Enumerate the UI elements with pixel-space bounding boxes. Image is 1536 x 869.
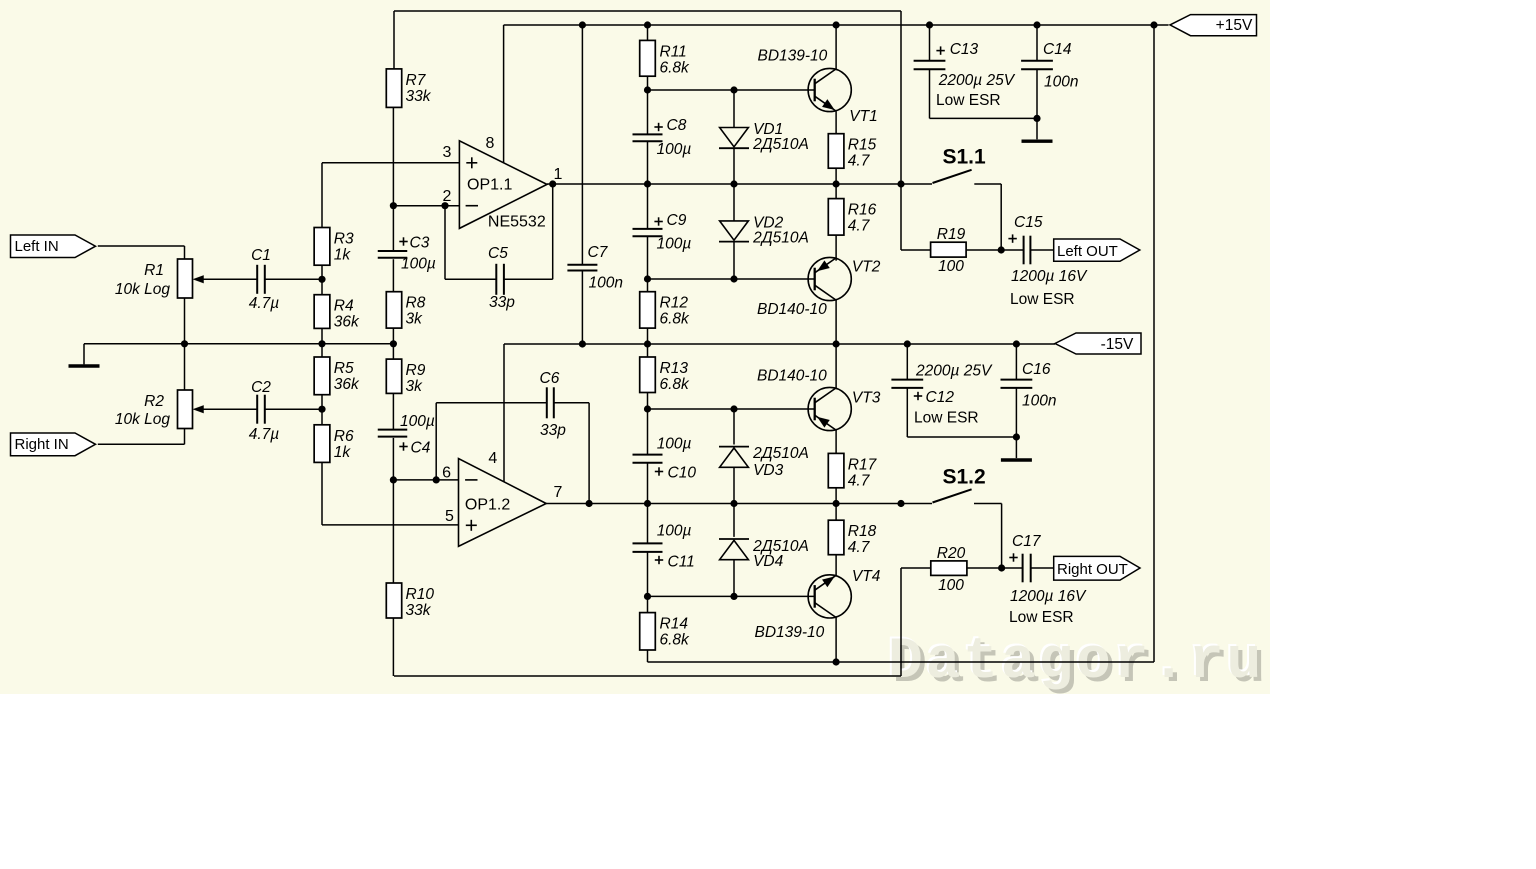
- svg-text:Low ESR: Low ESR: [1010, 291, 1075, 308]
- svg-text:C10: C10: [668, 465, 697, 482]
- svg-text:C6: C6: [540, 370, 560, 387]
- svg-text:6.8k: 6.8k: [660, 376, 691, 393]
- svg-text:VT1: VT1: [849, 108, 877, 125]
- svg-text:R12: R12: [660, 295, 689, 312]
- svg-text:C13: C13: [950, 41, 979, 58]
- svg-text:33p: 33p: [489, 294, 515, 311]
- svg-text:R8: R8: [406, 295, 426, 312]
- svg-text:2200µ 25V: 2200µ 25V: [915, 363, 993, 380]
- svg-text:4.7µ: 4.7µ: [249, 295, 280, 312]
- svg-text:1200µ 16V: 1200µ 16V: [1010, 588, 1087, 605]
- svg-text:R11: R11: [660, 43, 687, 60]
- svg-text:C15: C15: [1014, 214, 1043, 231]
- svg-text:100µ: 100µ: [400, 413, 435, 430]
- svg-text:10k Log: 10k Log: [115, 281, 171, 298]
- svg-text:NE5532: NE5532: [488, 214, 546, 231]
- svg-text:1k: 1k: [334, 444, 352, 461]
- svg-text:VD3: VD3: [753, 462, 784, 479]
- svg-text:OP1.2: OP1.2: [465, 497, 510, 514]
- svg-text:R9: R9: [406, 362, 426, 379]
- svg-text:2200µ 25V: 2200µ 25V: [938, 72, 1016, 89]
- svg-text:100: 100: [938, 258, 964, 275]
- svg-text:+15V: +15V: [1216, 17, 1253, 34]
- svg-text:36k: 36k: [334, 376, 360, 393]
- svg-text:36k: 36k: [334, 314, 360, 331]
- svg-text:C2: C2: [251, 379, 271, 396]
- svg-text:3k: 3k: [406, 378, 424, 395]
- svg-text:C5: C5: [488, 245, 508, 262]
- svg-text:6.8k: 6.8k: [660, 632, 691, 649]
- svg-text:100µ: 100µ: [657, 141, 692, 158]
- svg-text:R16: R16: [848, 202, 877, 219]
- svg-text:C16: C16: [1022, 361, 1051, 378]
- svg-text:R4: R4: [334, 298, 354, 315]
- svg-text:VT2: VT2: [852, 258, 881, 275]
- svg-text:100µ: 100µ: [657, 236, 692, 253]
- svg-text:1k: 1k: [334, 247, 352, 264]
- svg-text:R20: R20: [937, 545, 966, 562]
- svg-text:BD140-10: BD140-10: [757, 301, 827, 318]
- svg-text:R14: R14: [660, 616, 689, 633]
- svg-text:Left IN: Left IN: [15, 238, 59, 255]
- svg-text:3k: 3k: [406, 311, 424, 328]
- svg-text:R2: R2: [144, 393, 164, 410]
- svg-text:6.8k: 6.8k: [660, 59, 691, 76]
- svg-text:R6: R6: [334, 428, 354, 445]
- svg-text:6: 6: [442, 465, 451, 482]
- svg-text:R7: R7: [406, 72, 427, 89]
- svg-text:C1: C1: [251, 247, 271, 264]
- svg-text:Low ESR: Low ESR: [1009, 609, 1074, 626]
- svg-text:Right OUT: Right OUT: [1057, 561, 1128, 578]
- svg-text:4.7µ: 4.7µ: [249, 426, 280, 443]
- svg-text:R1: R1: [144, 262, 164, 279]
- svg-text:2Д510А: 2Д510А: [752, 445, 809, 462]
- svg-text:1200µ 16V: 1200µ 16V: [1011, 268, 1088, 285]
- svg-text:R17: R17: [848, 456, 878, 473]
- svg-text:100n: 100n: [589, 275, 623, 292]
- svg-text:100: 100: [938, 577, 964, 594]
- svg-text:33p: 33p: [540, 422, 566, 439]
- svg-text:Low ESR: Low ESR: [936, 92, 1001, 109]
- svg-text:8: 8: [486, 135, 495, 152]
- svg-text:1: 1: [554, 166, 563, 183]
- svg-text:4.7: 4.7: [848, 539, 871, 556]
- svg-text:R18: R18: [848, 523, 877, 540]
- svg-text:33k: 33k: [406, 88, 432, 105]
- svg-text:OP1.1: OP1.1: [467, 177, 512, 194]
- svg-text:C11: C11: [668, 553, 695, 570]
- svg-text:C17: C17: [1012, 533, 1042, 550]
- svg-text:S1.1: S1.1: [943, 145, 987, 168]
- svg-text:4: 4: [488, 450, 497, 467]
- svg-text:Right IN: Right IN: [15, 436, 69, 453]
- svg-text:4.7: 4.7: [848, 153, 871, 170]
- svg-text:R5: R5: [334, 360, 354, 377]
- svg-text:100µ: 100µ: [657, 436, 692, 453]
- svg-text:C14: C14: [1043, 41, 1072, 58]
- svg-text:R15: R15: [848, 137, 877, 154]
- svg-text:BD139-10: BD139-10: [755, 624, 825, 641]
- svg-text:3: 3: [443, 144, 452, 161]
- svg-text:33k: 33k: [406, 602, 432, 619]
- svg-text:C4: C4: [411, 440, 431, 457]
- svg-text:2Д510А: 2Д510А: [752, 229, 809, 246]
- svg-text:S1.2: S1.2: [943, 466, 986, 489]
- svg-text:C8: C8: [667, 117, 687, 134]
- svg-text:C3: C3: [410, 235, 430, 252]
- svg-text:10k Log: 10k Log: [115, 411, 171, 428]
- svg-text:VT3: VT3: [852, 389, 881, 406]
- svg-text:C9: C9: [667, 212, 687, 229]
- svg-text:7: 7: [554, 484, 563, 501]
- svg-text:VT4: VT4: [852, 568, 881, 585]
- svg-text:VD4: VD4: [753, 553, 784, 570]
- svg-text:6.8k: 6.8k: [660, 311, 691, 328]
- svg-text:Low ESR: Low ESR: [914, 410, 979, 427]
- svg-text:2Д510А: 2Д510А: [752, 136, 809, 153]
- svg-text:R3: R3: [334, 231, 354, 248]
- svg-text:BD139-10: BD139-10: [758, 47, 828, 64]
- svg-text:R19: R19: [937, 226, 966, 243]
- svg-text:Left OUT: Left OUT: [1057, 243, 1118, 260]
- svg-text:-15V: -15V: [1101, 336, 1134, 353]
- svg-text:4.7: 4.7: [848, 472, 871, 489]
- svg-text:C7: C7: [588, 244, 609, 261]
- svg-text:5: 5: [445, 508, 454, 525]
- svg-text:100n: 100n: [1022, 393, 1056, 410]
- svg-text:R13: R13: [660, 360, 689, 377]
- svg-text:4.7: 4.7: [848, 218, 871, 235]
- svg-text:100n: 100n: [1044, 74, 1078, 91]
- svg-text:100µ: 100µ: [401, 256, 436, 273]
- svg-text:100µ: 100µ: [657, 523, 692, 540]
- svg-text:2: 2: [443, 188, 452, 205]
- svg-text:R10: R10: [406, 586, 435, 603]
- svg-text:C12: C12: [926, 389, 955, 406]
- svg-text:BD140-10: BD140-10: [757, 367, 827, 384]
